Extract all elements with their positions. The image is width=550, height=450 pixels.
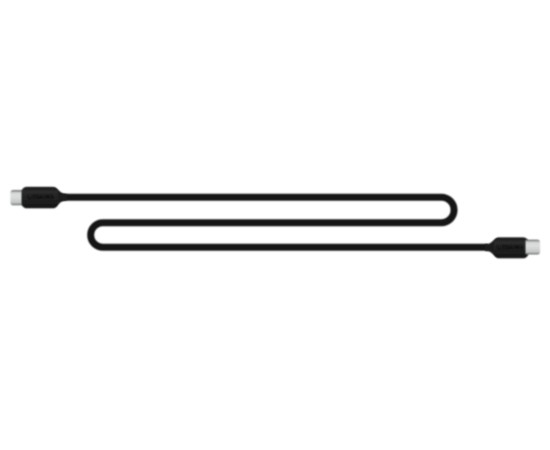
connector P2 right USB-C plug metal tip [526,240,541,255]
connector P2 right plug black housing [494,237,529,258]
connector P1 left USB-C plug metal tip [10,190,25,205]
wire: cable cord S-shaped path (top run, right U-turn, middle run, left U-turn, bottom run) [60,197,488,247]
svg-text:LIXIANG: LIXIANG [497,245,524,252]
connector P1 left plug black housing [22,187,59,208]
connector P2 right strain relief taper [485,238,498,257]
svg-text:LIXIANG: LIXIANG [27,194,54,201]
connector P1 left strain relief taper [54,188,67,207]
